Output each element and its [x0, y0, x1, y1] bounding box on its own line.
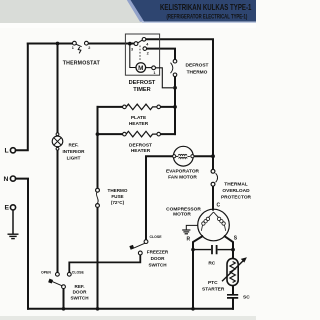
label REF. DOOR SWITCH	[70, 284, 89, 301]
wire left vertical plate heater to thermo fuse	[97, 107, 99, 188]
defrost timer switch arm 3-4	[138, 40, 143, 43]
defrost timer contact 3	[134, 42, 138, 46]
wire motor to contact1	[146, 67, 152, 69]
wire thermo fuse to bottom rail	[97, 207, 99, 308]
label COMPRESSOR MOTOR	[166, 207, 201, 218]
node defrost thermo / timer contact1	[173, 86, 177, 90]
compressor motor	[198, 209, 230, 241]
svg-text:EVAPORATOR: EVAPORATOR	[166, 169, 200, 175]
svg-text:TIMER: TIMER	[133, 87, 150, 93]
wire compressor S lead down	[225, 236, 233, 247]
wire overload to compressor C	[212, 186, 214, 210]
wire PTC to SC capacitor	[232, 286, 234, 294]
ref interior light lamp	[52, 133, 63, 150]
wire SC capacitor to bottom rail	[232, 299, 234, 309]
wire timer contact4 to right rail and down	[146, 39, 213, 169]
svg-text:SC: SC	[243, 294, 250, 300]
node plate heater right	[173, 105, 177, 109]
plate heater resistor	[123, 104, 161, 110]
node rail thermo fuse	[96, 307, 100, 311]
wire bottom rail	[28, 308, 233, 310]
wire fan motor left to freezer door switch	[146, 156, 173, 240]
dashed mechanical link to timer motor	[139, 46, 141, 62]
svg-text:MOTOR: MOTOR	[173, 212, 191, 218]
node defrost heater left	[96, 132, 100, 136]
node rail ref door switch	[62, 307, 66, 311]
svg-text:FUSE: FUSE	[111, 194, 123, 199]
svg-text:HEATER: HEATER	[131, 148, 151, 154]
thermostat S1	[72, 41, 91, 53]
svg-text:FAN MOTOR: FAN MOTOR	[168, 174, 197, 180]
wire timer input to motor	[130, 44, 136, 68]
svg-text:C: C	[217, 203, 221, 209]
label FREEZER DOOR SWITCH	[147, 249, 169, 267]
svg-text:(72°C): (72°C)	[111, 200, 125, 205]
defrost thermo	[171, 59, 177, 76]
svg-text:DOOR: DOOR	[151, 256, 165, 261]
label DEFROST HEATER	[129, 143, 152, 155]
svg-text:DEFROST: DEFROST	[186, 62, 209, 68]
wire L terminal to top rail riser	[16, 44, 28, 151]
wire contact1 out to defrost thermo line	[156, 68, 173, 88]
label EVAPORATOR FAN MOTOR	[166, 169, 200, 181]
svg-text:E: E	[5, 205, 10, 212]
svg-text:DEFROST: DEFROST	[129, 143, 152, 149]
defrost timer contact 2	[143, 47, 147, 51]
label DEFROST TIMER	[129, 80, 156, 93]
defrost timer box	[125, 34, 159, 75]
svg-text:LIGHT: LIGHT	[67, 156, 81, 161]
thermo fuse	[96, 188, 100, 207]
wire defrost heater left	[98, 133, 123, 135]
terminal E	[5, 205, 16, 212]
wire fan motor right to main right rail	[194, 155, 213, 157]
defrost heater resistor	[123, 131, 161, 137]
svg-text:OVERLOAD: OVERLOAD	[222, 188, 250, 194]
node RC right	[231, 248, 235, 252]
wire plate heater right	[160, 106, 175, 108]
svg-text:R: R	[187, 237, 191, 243]
banner light diagonal stripe	[127, 0, 145, 22]
node fan motor right rail	[211, 154, 215, 158]
wire top rail left segment	[28, 43, 73, 45]
thermostat contact 1	[73, 41, 77, 45]
wire defrost heater right	[160, 133, 175, 135]
node timer input	[128, 42, 132, 46]
wire ref door switch pivot to bottom rail	[63, 289, 65, 309]
timer motor M	[136, 63, 146, 73]
svg-text:THERMAL: THERMAL	[224, 182, 248, 188]
svg-text:1: 1	[153, 71, 155, 75]
svg-text:1: 1	[72, 46, 74, 50]
thermostat switch arm	[76, 44, 82, 53]
label REF. INTERIOR LIGHT	[63, 143, 86, 161]
svg-text:2: 2	[147, 52, 149, 56]
windings	[208, 212, 218, 218]
ground E	[8, 234, 19, 238]
banner bottom light line	[142, 21, 256, 23]
capacitor SC	[227, 294, 250, 300]
label DEFROST THERMO	[186, 62, 209, 75]
label THERMAL OVERLOAD PROTECTOR	[221, 182, 252, 201]
ref door switch	[41, 270, 85, 288]
svg-text:PROTECTOR: PROTECTOR	[221, 195, 252, 201]
defrost timer contact 4	[142, 38, 146, 42]
thermostat contact 2	[85, 41, 89, 45]
svg-text:L: L	[5, 148, 9, 155]
wire timer contact2 to defrost thermo	[147, 49, 175, 60]
svg-text:THERMOSTAT: THERMOSTAT	[63, 60, 101, 66]
svg-text:THERMO: THERMO	[108, 188, 128, 193]
compressor ground	[182, 225, 198, 233]
svg-text:SWITCH: SWITCH	[70, 295, 89, 300]
svg-text:KELISTRIKAN KULKAS TYPE-1: KELISTRIKAN KULKAS TYPE-1	[160, 2, 251, 12]
svg-text:PTC: PTC	[208, 280, 218, 286]
label PLATE HEATER	[129, 115, 149, 127]
capacitor RC	[193, 245, 233, 266]
wire N terminal to bottom rail	[16, 179, 28, 309]
svg-text:M: M	[138, 65, 143, 72]
terminal L	[5, 148, 16, 155]
node lamp branch on top rail	[56, 42, 60, 46]
wire thermostat to defrost timer	[88, 43, 134, 45]
wire defrost thermo down to defrost heater	[174, 77, 176, 134]
wire lamp branch lower to ref door switch	[57, 150, 59, 273]
evaporator fan motor	[173, 146, 194, 166]
svg-text:REF.: REF.	[69, 143, 79, 148]
svg-text:SWITCH: SWITCH	[148, 262, 167, 267]
freezer door switch	[129, 235, 162, 255]
svg-text:FREEZER: FREEZER	[147, 249, 169, 254]
svg-text:DOOR: DOOR	[73, 290, 87, 295]
svg-text:THERMO: THERMO	[187, 69, 208, 75]
svg-text:3: 3	[131, 47, 133, 51]
wire plate heater left	[98, 106, 123, 108]
svg-text:INTERIOR: INTERIOR	[63, 149, 86, 154]
node RC left	[191, 248, 195, 252]
svg-text:2: 2	[88, 46, 90, 50]
PTC starter	[222, 257, 247, 285]
wire freezer door switch link to ref close contact	[69, 255, 140, 272]
node rail compressor R	[191, 307, 195, 311]
label PTC STARTER	[202, 280, 225, 292]
bottom grey edge	[0, 316, 256, 320]
svg-text:RC: RC	[208, 260, 215, 266]
wire E terminal to ground	[12, 210, 14, 233]
defrost timer contact 1	[152, 66, 156, 70]
svg-text:(REFRIGERATOR ELECTRICAL TYPE-: (REFRIGERATOR ELECTRICAL TYPE-1)	[167, 14, 248, 21]
banner dark blue	[131, 0, 257, 22]
svg-text:REF.: REF.	[75, 284, 85, 289]
svg-text:STARTER: STARTER	[202, 286, 225, 292]
top grey band	[0, 0, 256, 23]
thermal overload protector	[211, 169, 218, 186]
svg-text:PLATE: PLATE	[131, 115, 147, 121]
terminal N	[4, 176, 16, 183]
svg-text:DEFROST: DEFROST	[129, 80, 156, 86]
svg-text:CLOSE: CLOSE	[72, 270, 85, 274]
svg-text:OPEN: OPEN	[41, 270, 51, 274]
svg-text:HEATER: HEATER	[129, 121, 149, 127]
svg-text:CLOSE: CLOSE	[150, 235, 163, 239]
svg-text:N: N	[4, 176, 9, 183]
wire compressor R lead down	[193, 236, 202, 308]
label THERMO FUSE (72C)	[108, 188, 128, 205]
wire lamp branch upper	[57, 44, 59, 133]
wire RC junction to PTC starter	[232, 252, 234, 259]
